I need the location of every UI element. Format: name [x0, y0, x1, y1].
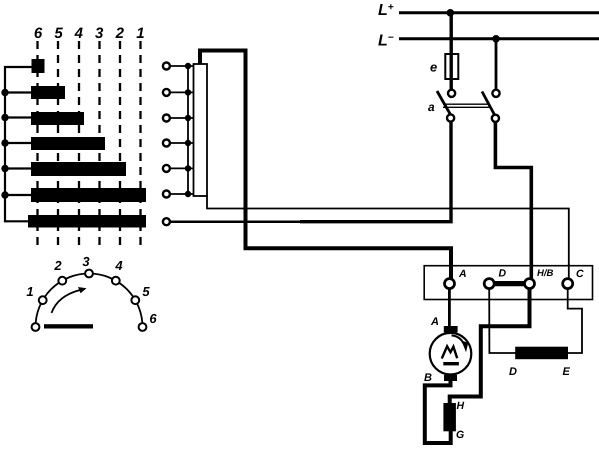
svg-text:C: C — [576, 268, 584, 280]
svg-text:B: B — [424, 372, 432, 384]
svg-text:A: A — [458, 268, 467, 280]
svg-text:1: 1 — [136, 25, 144, 42]
svg-text:a: a — [428, 100, 435, 114]
svg-text:H/B: H/B — [537, 268, 554, 279]
svg-text:D: D — [499, 268, 507, 280]
svg-text:6: 6 — [34, 25, 43, 42]
svg-text:6: 6 — [149, 311, 157, 326]
svg-text:2: 2 — [53, 258, 62, 273]
svg-text:D: D — [509, 366, 517, 378]
svg-text:A: A — [430, 316, 439, 328]
svg-text:E: E — [563, 366, 571, 378]
svg-text:e: e — [430, 60, 437, 75]
svg-text:2: 2 — [115, 25, 125, 42]
svg-text:H: H — [457, 400, 465, 412]
svg-text:5: 5 — [142, 284, 150, 299]
svg-text:4: 4 — [114, 258, 123, 273]
svg-text:3: 3 — [95, 25, 104, 42]
svg-text:3: 3 — [82, 254, 90, 269]
svg-text:5: 5 — [54, 25, 63, 42]
svg-text:1: 1 — [26, 284, 33, 299]
svg-text:G: G — [456, 429, 464, 441]
svg-text:4: 4 — [74, 25, 84, 42]
